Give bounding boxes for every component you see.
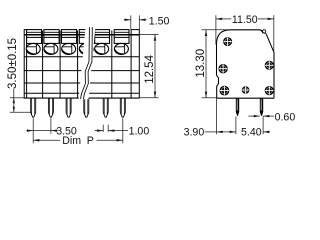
break white band [79, 27, 96, 99]
pole 3 push button [62, 30, 77, 44]
solder pin 6 front view [120, 98, 125, 117]
pole 1 push button [27, 30, 42, 44]
side view rivet circle bottom-center [242, 86, 250, 94]
svg-text:0.60: 0.60 [275, 112, 296, 124]
front view left end wall [24, 30, 26, 99]
svg-text:1.00: 1.00 [129, 125, 150, 137]
pole 6 wire entry opening [114, 43, 128, 54]
solder pin 3 front view [66, 98, 71, 117]
front view housing horizontal line 1 [24, 56, 139, 58]
dimension 3.90 pin offset [184, 98, 236, 138]
svg-text:P: P [87, 135, 94, 147]
pole separator line 4 [111, 31, 113, 99]
break line left [81, 27, 90, 99]
dimension 11.50 housing width [216, 14, 274, 53]
svg-text:12.54: 12.54 [144, 54, 156, 83]
svg-text:11.50: 11.50 [232, 14, 258, 26]
pole 6 push button [114, 30, 129, 44]
pole 4 push button [79, 30, 94, 44]
side view solder pin A [236, 98, 239, 116]
front view housing horizontal line 4 [24, 92, 139, 94]
solder pin 2 front view [48, 98, 53, 117]
terminal block front view body top edge [24, 34, 139, 36]
front view housing horizontal line 3 [24, 82, 139, 84]
dimension 1.00 pin width [95, 125, 150, 138]
dimension 0.60 pin thickness [248, 112, 295, 124]
side view latch curl [260, 30, 266, 34]
front view body top edge across buttons [24, 34, 139, 36]
side view rivet circle top-right [265, 61, 274, 70]
side view rivet circle bottom-left [220, 86, 230, 96]
front view right end wall [131, 30, 139, 99]
svg-text:1.50: 1.50 [149, 16, 170, 28]
side view rivet circle bottom-right [265, 86, 274, 95]
side view rivet circle top-left [223, 37, 232, 46]
solder pin 5 front view [103, 98, 108, 117]
front view body bottom edge [24, 97, 140, 99]
pole 2 wire entry opening [44, 43, 58, 54]
svg-text:Dim: Dim [62, 135, 81, 147]
side view rivet circle mid-left [218, 64, 227, 73]
pole separator line 1 [42, 31, 44, 99]
pole 5 wire entry opening [95, 43, 109, 54]
pole 2 push button [44, 30, 59, 44]
pole separator line 2 [59, 31, 61, 99]
pole 5 push button [95, 30, 110, 44]
pole 4 wire entry opening [79, 43, 93, 54]
dimension 12.54 housing height [139, 35, 158, 98]
break line right [84, 27, 93, 99]
solder pin 1 front view [31, 98, 36, 117]
dimension 5.40 pin spacing [241, 116, 270, 139]
svg-text:3.50±0.15: 3.50±0.15 [7, 38, 19, 89]
dimension 1.50 end wall width [124, 15, 170, 29]
pole 1 wire entry opening [26, 43, 40, 54]
front view housing horizontal line 2 [24, 70, 139, 72]
dimension 13.30 housing height [195, 30, 230, 98]
pole separator line 3 [77, 31, 79, 99]
dimension 3.50 pin pitch [26, 118, 77, 143]
side view solder pin B [260, 98, 263, 116]
svg-text:13.30: 13.30 [195, 49, 207, 78]
svg-text:5.40: 5.40 [241, 127, 262, 139]
dimension 3.50 plus-minus 0.15 pin length [7, 38, 31, 112]
side view housing outline [217, 30, 275, 98]
pole 3 wire entry opening [62, 43, 76, 54]
dimension Dim P overall pin span [33, 118, 123, 147]
svg-text:3.90: 3.90 [184, 127, 205, 139]
solder pin 4 front view [84, 98, 89, 117]
